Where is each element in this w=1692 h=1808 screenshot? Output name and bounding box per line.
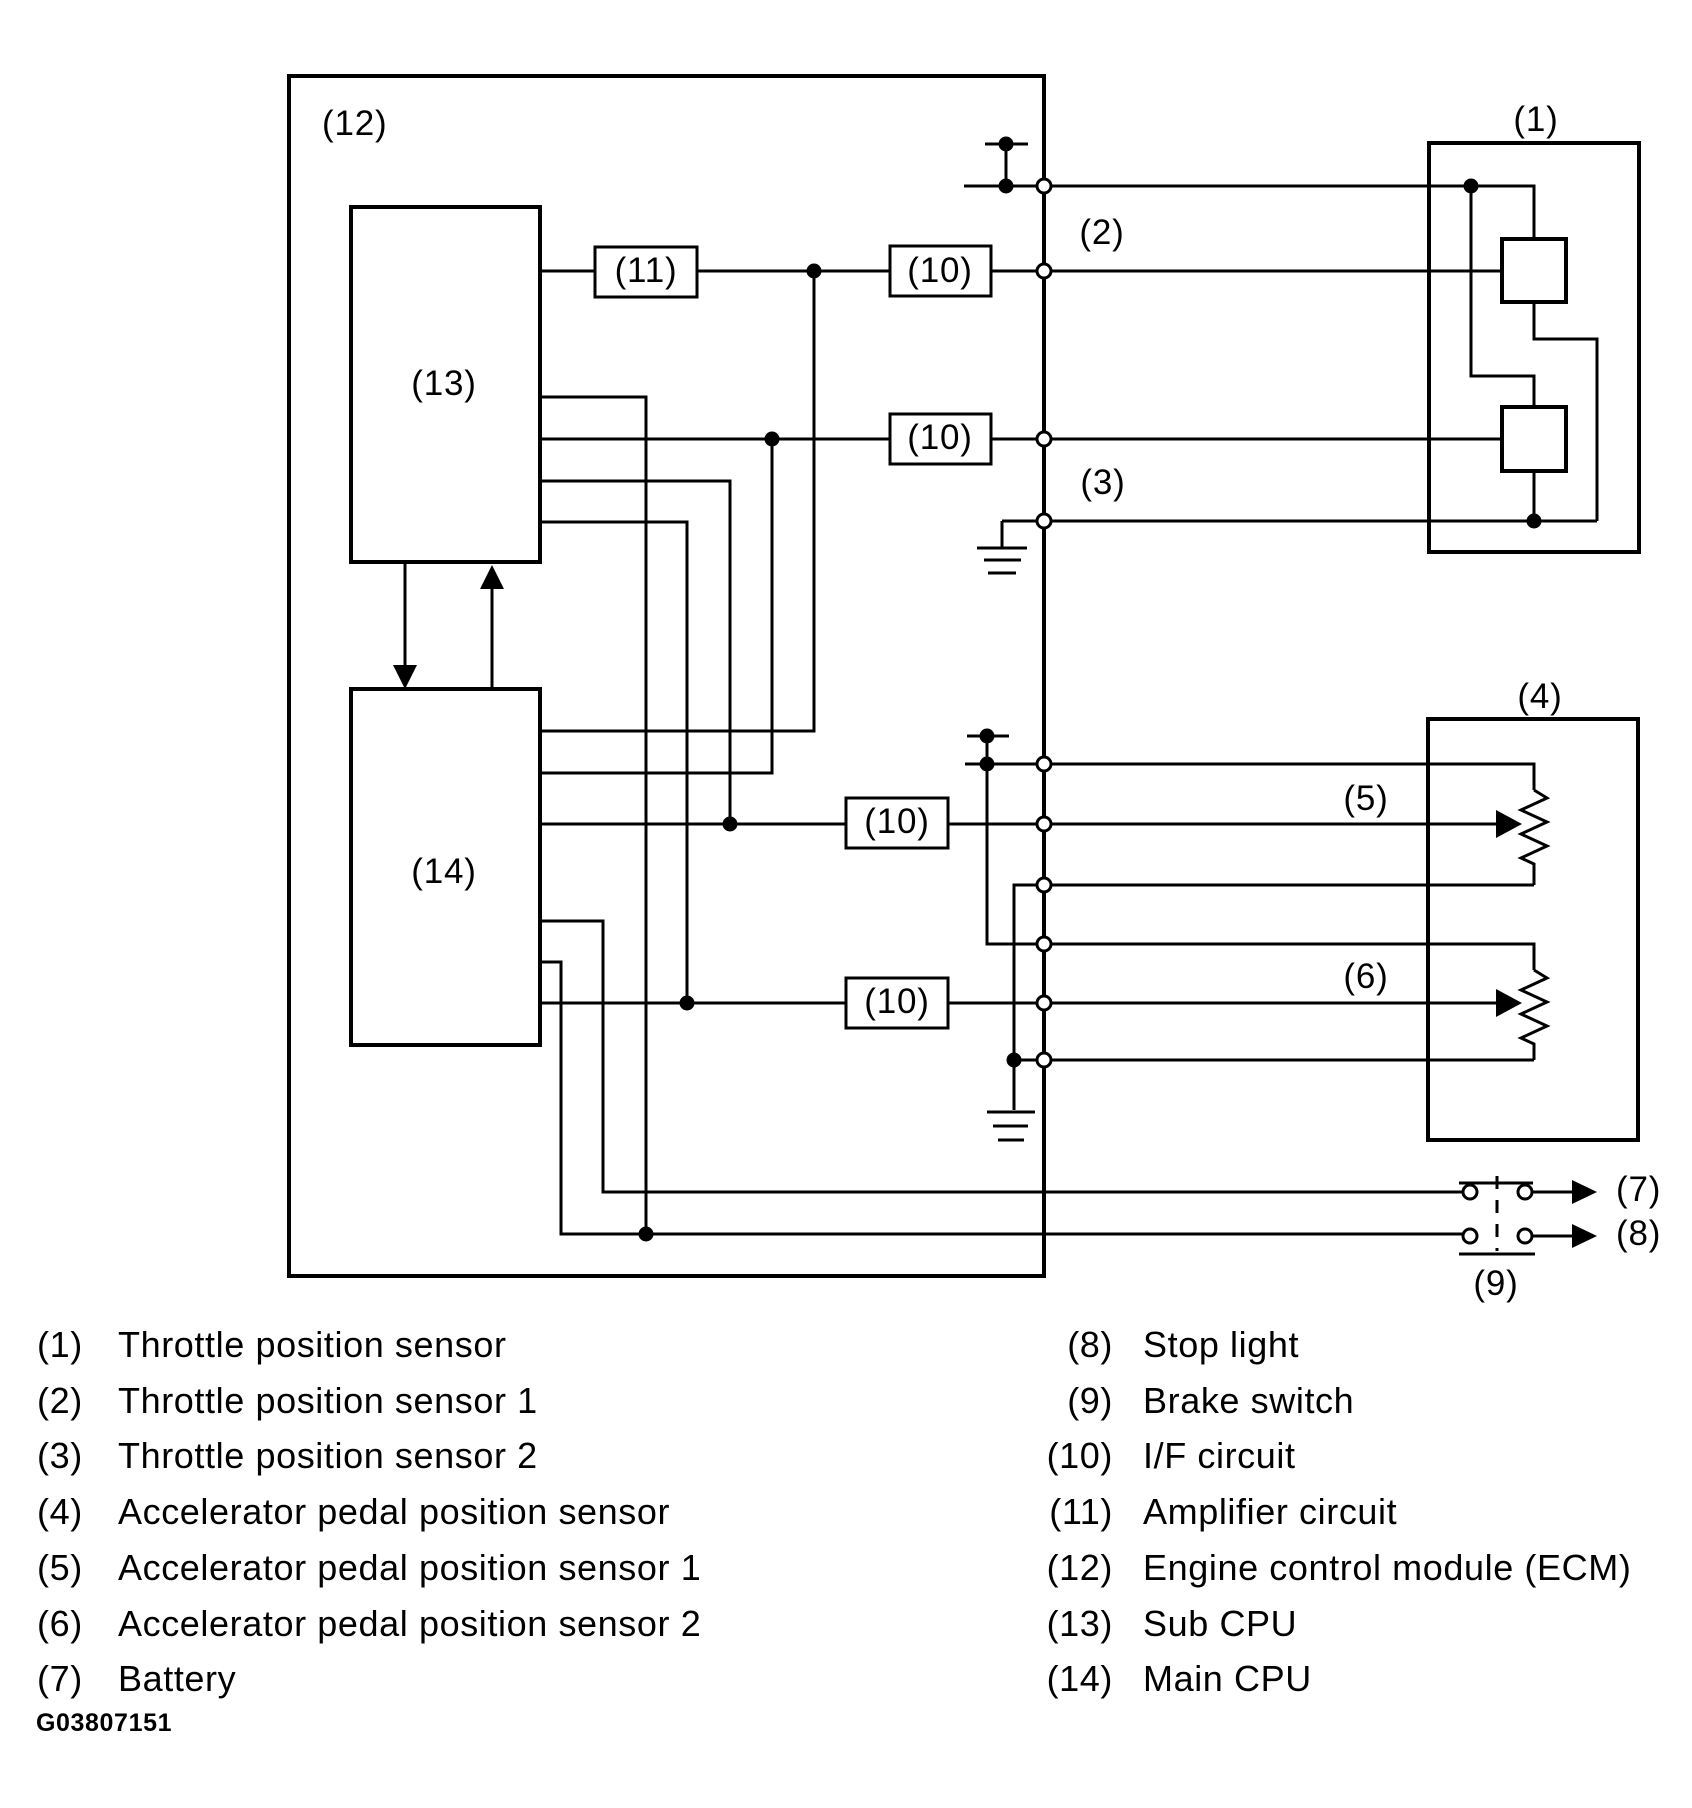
- svg-text:Main CPU: Main CPU: [1143, 1658, 1312, 1699]
- wire resistor (5) bottom to ground net: [1014, 885, 1534, 1060]
- svg-text:G03807151: G03807151: [36, 1709, 172, 1737]
- brake switch contact bar bottom: [1459, 1253, 1535, 1256]
- wire (14) to (10) fourth: [540, 1002, 846, 1005]
- svg-text:(11): (11): [615, 251, 678, 290]
- I/F circuit box (10) third: [846, 798, 948, 848]
- svg-text:(13): (13): [411, 364, 476, 403]
- wire battery feed to throttle sensor: [964, 186, 1534, 239]
- svg-text:(10): (10): [864, 982, 929, 1021]
- wire (13) branch to (6) I/F net: [540, 522, 687, 1003]
- svg-text:(10): (10): [907, 418, 972, 457]
- I/F circuit box (10) top: [890, 246, 991, 296]
- svg-text:(10): (10): [864, 802, 929, 841]
- junction dot accelerator ground: [1007, 1053, 1022, 1068]
- svg-text:Stop light: Stop light: [1143, 1324, 1299, 1365]
- wire (2) bus to element 1: [1044, 270, 1502, 273]
- junction dot amplifier output: [807, 264, 822, 279]
- brake switch terminal row 2 right: [1518, 1229, 1532, 1243]
- wire element 1 bottom to ground net: [1534, 302, 1597, 521]
- svg-text:(10): (10): [1047, 1435, 1113, 1476]
- svg-text:(9): (9): [1473, 1264, 1518, 1303]
- throttle position sensor box (1): [1429, 143, 1639, 552]
- wiper line (6): [1044, 1002, 1498, 1005]
- junction dot (3) net: [1527, 514, 1542, 529]
- bus terminal node sensor2 signal: [1037, 432, 1051, 446]
- svg-text:(12): (12): [322, 104, 387, 143]
- junction dot (10) second net: [765, 432, 780, 447]
- wire (13) to (10) second: [540, 438, 890, 441]
- junction dot (6) I/F net: [680, 996, 695, 1011]
- svg-text:(11): (11): [1049, 1491, 1113, 1532]
- wire (14) to (10) third: [540, 823, 846, 826]
- battery feed tap lower stem: [986, 736, 989, 764]
- brake switch (9) contact bar top: [1459, 1182, 1533, 1185]
- wire (13) to (11): [540, 270, 595, 273]
- svg-text:I/F circuit: I/F circuit: [1143, 1435, 1296, 1476]
- bus terminal node accel return 1: [1037, 878, 1051, 892]
- potentiometer resistor (5): [1521, 790, 1547, 885]
- ground throttle sensor side: [977, 521, 1027, 573]
- wire (3) ground return: [1002, 520, 1597, 523]
- potentiometer resistor (6): [1521, 970, 1547, 1060]
- Sub CPU box (13): [351, 207, 540, 562]
- svg-text:(13): (13): [1047, 1603, 1113, 1644]
- svg-text:Sub CPU: Sub CPU: [1143, 1603, 1297, 1644]
- brake switch terminal row 1 right: [1518, 1185, 1532, 1199]
- junction dot feed lower: [980, 757, 995, 772]
- wire (14) branch to (10) second net: [540, 439, 772, 773]
- svg-text:(5): (5): [37, 1547, 83, 1588]
- sensor element 2: [1502, 407, 1566, 471]
- battery feed tap lower dot: [980, 729, 995, 744]
- svg-text:(10): (10): [907, 251, 972, 290]
- svg-text:Accelerator pedal position sen: Accelerator pedal position sensor 2: [118, 1603, 701, 1644]
- wire (10) top to bus node (2): [991, 270, 1044, 273]
- bus terminal node (3): [1037, 514, 1051, 528]
- wire feed down to resistor (6) top: [987, 764, 1044, 944]
- wire feed to resistor (5) top: [965, 764, 1534, 790]
- svg-text:(6): (6): [37, 1603, 83, 1644]
- svg-text:Amplifier circuit: Amplifier circuit: [1143, 1491, 1397, 1532]
- bus terminal node (5): [1037, 817, 1051, 831]
- svg-text:(1): (1): [37, 1324, 83, 1365]
- svg-text:(9): (9): [1067, 1380, 1113, 1421]
- bus terminal node accel power 2: [1037, 937, 1051, 951]
- sensor element 1: [1502, 239, 1566, 302]
- svg-text:Accelerator pedal position sen: Accelerator pedal position sensor 1: [118, 1547, 701, 1588]
- brake switch terminal row 2 left: [1463, 1229, 1477, 1243]
- amplifier circuit box (11): [595, 247, 697, 297]
- svg-text:(5): (5): [1343, 779, 1388, 818]
- svg-text:(7): (7): [37, 1658, 83, 1699]
- brake switch mechanical link dashed: [1496, 1176, 1499, 1251]
- battery feed tap top bar: [985, 143, 1028, 146]
- wire (13) to stop light net: [540, 397, 646, 1234]
- svg-text:(1): (1): [1513, 100, 1558, 139]
- svg-text:(14): (14): [411, 852, 476, 891]
- ground accelerator sensor side: [987, 1060, 1035, 1140]
- wire switch to stop light arrow: [1532, 1235, 1576, 1238]
- arrowhead (8): [1572, 1224, 1597, 1248]
- svg-text:Throttle position sensor 1: Throttle position sensor 1: [118, 1380, 538, 1421]
- wire (11) to (10) top: [697, 270, 890, 273]
- svg-text:(3): (3): [1080, 463, 1125, 502]
- wire element 2 bottom to ground net: [1533, 471, 1536, 521]
- junction dot feed top: [999, 179, 1014, 194]
- svg-text:(12): (12): [1047, 1547, 1113, 1588]
- svg-text:(7): (7): [1616, 1170, 1661, 1209]
- junction dot stop light net: [639, 1227, 654, 1242]
- svg-text:Brake switch: Brake switch: [1143, 1380, 1354, 1421]
- I/F circuit box (10) second: [890, 414, 991, 464]
- battery feed tap top dot: [999, 137, 1014, 152]
- bus terminal node power: [1037, 179, 1051, 193]
- bus terminal node accel return 2: [1037, 1053, 1051, 1067]
- svg-text:Throttle position sensor 2: Throttle position sensor 2: [118, 1435, 538, 1476]
- arrowhead (7): [1572, 1180, 1597, 1204]
- junction dot (5) I/F net: [723, 817, 738, 832]
- brake switch terminal row 1 left: [1463, 1185, 1477, 1199]
- bus terminal node (2): [1037, 264, 1051, 278]
- svg-text:(8): (8): [1616, 1214, 1661, 1253]
- wire bus to resistor (6) top: [1044, 944, 1534, 970]
- svg-text:(4): (4): [1517, 677, 1562, 716]
- svg-text:(14): (14): [1047, 1658, 1113, 1699]
- battery feed tap lower bar: [967, 735, 1009, 738]
- wire (10) second to bus node (3) input: [991, 438, 1044, 441]
- wiper arrowhead (6): [1496, 989, 1522, 1017]
- wire feed to sensor element 2: [1471, 186, 1534, 407]
- svg-text:(3): (3): [37, 1435, 83, 1476]
- svg-text:Engine control module (ECM): Engine control module (ECM): [1143, 1547, 1631, 1588]
- svg-text:(4): (4): [37, 1491, 83, 1532]
- wire (14) to battery line (7): [540, 921, 1463, 1192]
- svg-text:Accelerator pedal position sen: Accelerator pedal position sensor: [118, 1491, 670, 1532]
- wire (13) branch to (5) I/F net: [540, 481, 730, 824]
- svg-text:Battery: Battery: [118, 1658, 236, 1699]
- svg-text:(2): (2): [37, 1380, 83, 1421]
- wire (14) to stop light line (8): [540, 962, 1463, 1234]
- I/F circuit box (10) fourth: [846, 978, 948, 1028]
- wire junction to (14) feedback: [540, 271, 814, 731]
- wire bus to element 2: [1044, 438, 1502, 441]
- Main CPU box (14): [351, 689, 540, 1045]
- wire (10) third to bus: [948, 823, 1044, 826]
- wire switch to battery arrow: [1532, 1191, 1576, 1194]
- junction dot feed split in sensor: [1464, 179, 1479, 194]
- bus arrow (14) to (13): [480, 565, 504, 689]
- bus arrow (13) to (14): [393, 562, 417, 689]
- battery feed tap top stem: [1005, 144, 1008, 186]
- wire resistor (6) bottom to ground net: [1014, 1059, 1534, 1062]
- accelerator pedal position sensor box (4): [1428, 719, 1638, 1140]
- wiper arrowhead (5): [1496, 810, 1522, 838]
- wiper line (5): [1044, 823, 1498, 826]
- svg-text:(6): (6): [1343, 957, 1388, 996]
- svg-text:Throttle position sensor: Throttle position sensor: [118, 1324, 507, 1365]
- wire (10) fourth to bus: [948, 1002, 1044, 1005]
- svg-text:(2): (2): [1079, 213, 1124, 252]
- bus terminal node accel power: [1037, 757, 1051, 771]
- svg-text:(8): (8): [1067, 1324, 1113, 1365]
- bus terminal node (6): [1037, 996, 1051, 1010]
- ECM box (12): [289, 76, 1044, 1276]
